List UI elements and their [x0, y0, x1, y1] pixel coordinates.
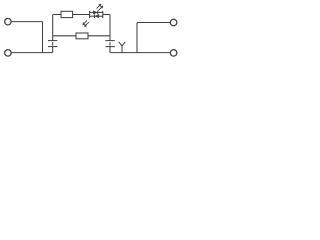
disconnect plug P2 lower bar [105, 46, 114, 48]
disconnect plug P1 pin tick [52, 42, 54, 45]
wire top rail left segment [53, 14, 61, 16]
terminal X1 left top [5, 18, 11, 25]
LED D1 left bar [89, 11, 91, 18]
wire left top horizontal [11, 21, 42, 23]
wire LED to corner [103, 14, 110, 16]
wire middle rail left segment [53, 35, 76, 37]
wire R1 to LED block [73, 14, 90, 16]
disconnect plug P2 pin tick [109, 42, 111, 45]
test tap Y arms [119, 42, 125, 46]
test tap Y stem [121, 46, 123, 53]
wire plug2 lower lead [109, 47, 111, 53]
LED D1 emission arrow down-left 1 [83, 20, 88, 25]
LED D1 emission arrow up-right 2 [98, 6, 103, 11]
LED D1 top diode triangle [93, 11, 97, 14]
wire plug1 lower lead [52, 47, 54, 53]
wire node A up to top rail [52, 15, 54, 36]
LED D1 emission arrow down-left 2 [84, 22, 89, 27]
wire plug2 upper lead [109, 36, 111, 41]
LED D1 bottom branch wire [90, 15, 103, 17]
wire middle rail right segment [88, 35, 110, 37]
resistor R1 [61, 11, 73, 17]
LED D1 emission arrow up-right 1 [97, 4, 102, 9]
resistor R2 [76, 33, 88, 39]
LED D1 bottom diode cathode bar [94, 14, 96, 18]
disconnect plug P2 upper bar [105, 40, 114, 42]
wire bottom-left rail [11, 52, 53, 54]
wire left top vertical down [42, 22, 44, 53]
terminal X2 left bottom [5, 50, 11, 57]
terminal X4 right bottom [170, 50, 177, 57]
wire plug1 upper lead to node A [52, 36, 54, 41]
wire right top horizontal [137, 22, 170, 24]
LED D1 top diode cathode bar [97, 11, 99, 15]
wire right vertical [136, 23, 138, 53]
disconnect plug P1 upper bar [48, 40, 57, 42]
LED D1 right bar [102, 11, 104, 18]
terminal X3 right top [170, 19, 177, 26]
disconnect plug P1 lower bar [48, 46, 57, 48]
LED D1 bottom diode triangle [95, 15, 99, 18]
LED D1 top branch wire [90, 11, 103, 13]
wire bottom-right rail [110, 52, 170, 54]
wire right vertical of top loop [109, 15, 111, 36]
